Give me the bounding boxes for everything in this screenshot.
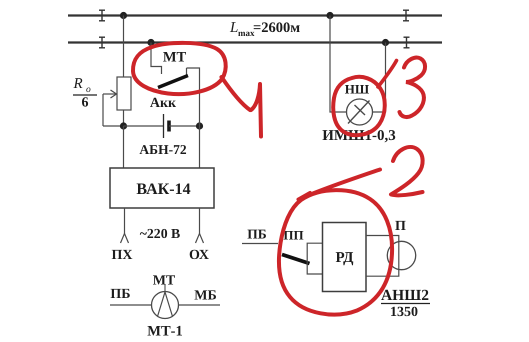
relay P winding circle <box>387 241 415 269</box>
annotation: red loop 3 around lamp <box>333 77 385 135</box>
wire: resistor bottom to node <box>123 110 125 126</box>
wire: left node down to VAK-14 <box>123 126 125 168</box>
wire: PB lead <box>110 304 152 306</box>
svg-text:L: L <box>229 20 238 36</box>
wire: lower line of two-wire circuit <box>68 41 442 43</box>
contact MT: right terminal <box>187 68 200 126</box>
resistor R0/6 (ballast rheostat) <box>117 77 131 110</box>
svg-text:=2600м: =2600м <box>253 20 300 36</box>
box RD <box>323 223 367 292</box>
wire: battery row left segment <box>124 125 164 127</box>
relay lamp NSh: circle <box>347 99 373 125</box>
label R0/6 <box>73 76 98 111</box>
node: line 1 / lamp branch junction <box>326 12 333 19</box>
annotation: red loop 1 around MT contact <box>133 43 226 94</box>
insulator joint, line 1 left <box>99 10 105 21</box>
battery Akk: long plate <box>163 114 165 138</box>
svg-text:НШ: НШ <box>345 82 370 97</box>
svg-text:П: П <box>395 219 406 234</box>
svg-text:R: R <box>73 76 83 92</box>
svg-text:ПБ: ПБ <box>247 227 267 242</box>
wire: right node down to VAK-14 <box>199 126 201 168</box>
svg-text:ВАК-14: ВАК-14 <box>136 181 190 198</box>
svg-text:ПП: ПП <box>283 228 303 243</box>
insulator joint, line 2 right <box>404 37 410 48</box>
insulator joint, line 2 left <box>99 37 105 48</box>
wire: drop from line 1 to lamp <box>330 16 347 113</box>
svg-text:АНШ2: АНШ2 <box>381 287 429 304</box>
rheostat tap arrow <box>103 90 117 98</box>
fraction bar ANSh2/1350 <box>381 303 430 305</box>
microphone-telephone MT-1: circle <box>152 292 179 319</box>
svg-text:АБН-72: АБН-72 <box>139 142 186 157</box>
wire: drop from line 2 to lamp <box>373 43 386 113</box>
node: battery left junction <box>120 122 127 129</box>
contact MT: left terminal <box>151 43 162 75</box>
wire: MB lead <box>179 304 221 306</box>
terminal arrow PH <box>121 234 129 244</box>
insulator joint, line 1 right <box>403 10 409 21</box>
wire: tap down <box>102 94 104 126</box>
wire: battery row right segment <box>169 125 200 127</box>
node: battery right junction <box>196 122 203 129</box>
svg-text:ОХ: ОХ <box>189 248 209 263</box>
contact MT: blade <box>158 76 188 88</box>
annotation: red digit 3 <box>400 58 426 117</box>
relay lamp NSh: short diagonal <box>355 105 366 115</box>
wire: VAK-14 to OH terminal <box>199 208 201 234</box>
box VAK-14 <box>110 168 214 208</box>
svg-text:о: о <box>86 85 91 95</box>
bracket right of RD <box>366 236 399 277</box>
annotation: red pointer stroke of digit 2 <box>299 170 381 200</box>
annotation: red digit 2 <box>391 147 423 195</box>
svg-text:МТ-1: МТ-1 <box>147 324 182 340</box>
wire: VAK-14 to PH terminal <box>124 208 126 234</box>
svg-text:МТ: МТ <box>163 50 187 66</box>
microphone MT-1: lambda element <box>158 292 173 317</box>
wire: PB lead to contact <box>242 243 278 245</box>
node: line 2 / MT contact junction <box>147 39 154 46</box>
svg-text:МТ: МТ <box>153 274 176 289</box>
svg-text:Акк: Акк <box>150 96 177 111</box>
relay lamp NSh: long diagonal <box>348 101 370 124</box>
annotation: red loop 2 around RD <box>279 190 392 314</box>
annotation: red digit 1 <box>251 84 261 137</box>
node: line 1 / rheostat branch junction <box>120 12 127 19</box>
terminal arrow OH <box>196 234 204 244</box>
annotation: red tail from loop 1 <box>222 77 251 110</box>
contact blade (NP contact) <box>282 255 310 264</box>
wire: upper line of two-wire circuit <box>68 14 442 16</box>
wire: tap bottom to node <box>103 125 124 127</box>
svg-text:6: 6 <box>82 96 89 111</box>
svg-text:ПБ: ПБ <box>110 287 130 302</box>
annotation: red tail from loop 3 <box>378 61 397 88</box>
battery Akk: short thick plate <box>167 121 171 132</box>
svg-text:МБ: МБ <box>194 289 216 304</box>
node: line 2 / lamp branch junction <box>382 39 389 46</box>
wire: stub from MT label to mic circle <box>164 285 166 293</box>
label Lmax=2600m <box>229 20 300 38</box>
svg-text:ПХ: ПХ <box>112 248 133 263</box>
svg-text:РД: РД <box>336 250 355 266</box>
svg-text:1350: 1350 <box>390 305 418 320</box>
wire: drop from line 1 to rheostat <box>123 16 125 78</box>
fixed contact bracket left of RD <box>307 243 322 274</box>
svg-text:~220 В: ~220 В <box>140 226 181 241</box>
